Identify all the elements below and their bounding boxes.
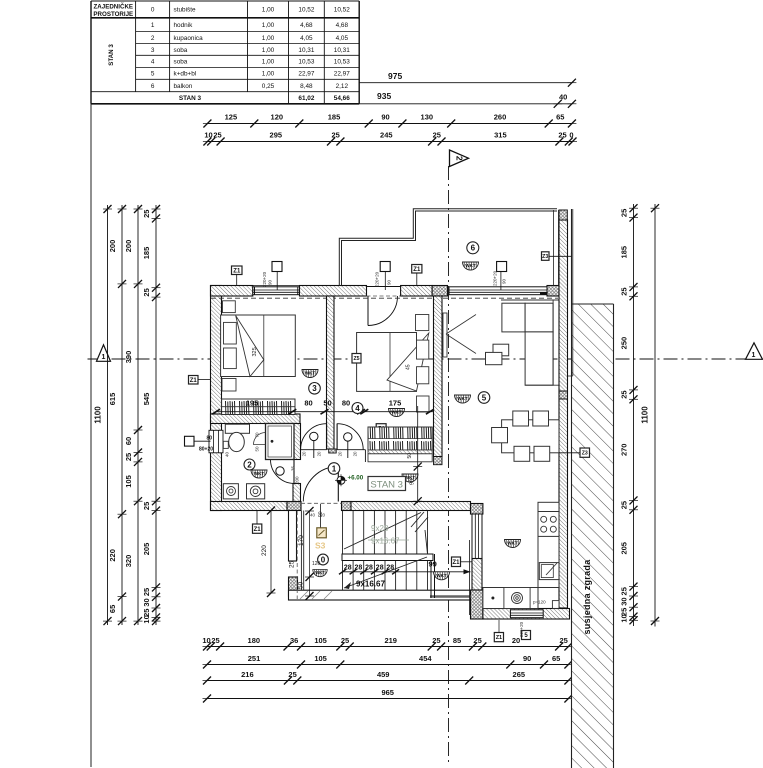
TV bench bbox=[443, 313, 447, 357]
divider wall room3/room4 bbox=[327, 296, 335, 449]
svg-text:80+20: 80+20 bbox=[199, 447, 213, 453]
svg-text:soba: soba bbox=[174, 59, 188, 66]
svg-text:185: 185 bbox=[142, 247, 151, 260]
svg-text:5: 5 bbox=[482, 393, 487, 402]
svg-text:soba: soba bbox=[174, 47, 188, 54]
shower bbox=[266, 424, 295, 460]
svg-text:220+20: 220+20 bbox=[519, 621, 524, 637]
section line 1-1 horizontal dash-dot bbox=[88, 358, 763, 360]
svg-text:WKT: WKT bbox=[305, 371, 316, 376]
sink unit bbox=[247, 484, 265, 499]
svg-text:10,53: 10,53 bbox=[298, 59, 314, 66]
kitchen west wall bbox=[471, 504, 483, 515]
svg-text:p=120: p=120 bbox=[533, 600, 546, 605]
svg-text:4,05: 4,05 bbox=[300, 35, 313, 42]
svg-text:10,52: 10,52 bbox=[334, 7, 350, 14]
svg-text:120: 120 bbox=[312, 561, 321, 567]
left chain 200/615/220/65 bbox=[121, 205, 123, 625]
svg-text:9x28: 9x28 bbox=[371, 524, 389, 533]
hall shoe cabinet bbox=[368, 454, 432, 462]
svg-text:245: 245 bbox=[380, 131, 393, 140]
svg-text:2,12: 2,12 bbox=[336, 83, 349, 90]
svg-text:459: 459 bbox=[377, 670, 390, 679]
svg-text:20: 20 bbox=[317, 451, 322, 456]
svg-text:28: 28 bbox=[365, 565, 373, 572]
svg-text:WKT: WKT bbox=[436, 573, 447, 578]
svg-text:60: 60 bbox=[124, 437, 133, 445]
svg-text:Z3: Z3 bbox=[542, 254, 548, 260]
svg-text:30: 30 bbox=[620, 597, 629, 605]
left chain 200/390/60/25/105/320 bbox=[137, 205, 139, 625]
bed room4 bbox=[357, 333, 417, 392]
svg-text:65: 65 bbox=[552, 654, 560, 663]
stair dim 28s bbox=[343, 571, 471, 573]
bathroom door bbox=[293, 460, 295, 484]
svg-text:k+db+bl: k+db+bl bbox=[174, 71, 197, 78]
bathroom east wall bbox=[293, 424, 301, 460]
living room balcony glass door bbox=[449, 287, 547, 295]
svg-text:25: 25 bbox=[142, 502, 151, 510]
nightstand room4 top bbox=[416, 315, 429, 331]
svg-text:935: 935 bbox=[377, 91, 391, 101]
svg-text:454: 454 bbox=[419, 654, 432, 663]
Z1 label kitchen wall bbox=[452, 557, 461, 567]
svg-text:219: 219 bbox=[384, 636, 397, 645]
apartment entrance door bbox=[303, 467, 338, 502]
svg-text:9x16.67: 9x16.67 bbox=[371, 537, 400, 546]
svg-text:216: 216 bbox=[241, 670, 254, 679]
right chain 25/185/25/250/25/270/25/205/25/30/25/10 bbox=[633, 204, 635, 626]
svg-text:99: 99 bbox=[429, 560, 437, 569]
svg-text:615: 615 bbox=[108, 393, 117, 406]
svg-text:25: 25 bbox=[289, 560, 296, 568]
svg-text:220+20: 220+20 bbox=[375, 271, 380, 287]
svg-text:10,52: 10,52 bbox=[298, 7, 314, 14]
svg-text:10: 10 bbox=[620, 614, 629, 622]
svg-text:25: 25 bbox=[620, 587, 629, 595]
svg-text:130: 130 bbox=[421, 113, 434, 122]
left chain 25/185/25/545/25/205/25/30/25/10 bbox=[155, 205, 157, 625]
svg-text:PROSTORIJE: PROSTORIJE bbox=[93, 11, 133, 18]
svg-text:185: 185 bbox=[328, 113, 341, 122]
svg-text:2: 2 bbox=[247, 460, 252, 469]
svg-text:1100: 1100 bbox=[641, 406, 650, 424]
svg-text:40: 40 bbox=[559, 93, 567, 102]
svg-text:1,00: 1,00 bbox=[262, 59, 275, 66]
entrance door dashed head bbox=[301, 502, 342, 504]
svg-text:30: 30 bbox=[142, 598, 151, 606]
interior dim line rooms 3/4 bbox=[216, 411, 434, 413]
svg-text:90: 90 bbox=[502, 278, 507, 284]
svg-text:ZAJEDNIČKE: ZAJEDNIČKE bbox=[94, 4, 134, 11]
stair zone south wall bbox=[289, 590, 471, 600]
svg-text:Z3: Z3 bbox=[582, 451, 588, 457]
toilet bbox=[225, 424, 249, 433]
svg-text:25: 25 bbox=[124, 453, 133, 461]
svg-text:250: 250 bbox=[620, 337, 629, 350]
left chain total 1100 bbox=[107, 205, 109, 625]
bed room3 bbox=[221, 315, 296, 377]
svg-text:6: 6 bbox=[471, 244, 476, 253]
kitchen sink bbox=[539, 563, 559, 580]
bathroom window in left wall bbox=[209, 430, 223, 453]
wall room4/room5 bbox=[434, 296, 443, 457]
svg-text:0: 0 bbox=[151, 7, 155, 14]
svg-text:545: 545 bbox=[142, 393, 151, 406]
stove bbox=[538, 512, 559, 537]
svg-text:25: 25 bbox=[341, 636, 349, 645]
svg-text:stubište: stubište bbox=[174, 7, 196, 14]
Z1 label (left wall) bbox=[189, 376, 199, 385]
svg-text:61,02: 61,02 bbox=[298, 95, 314, 102]
svg-text:90: 90 bbox=[381, 113, 389, 122]
bottom chain row 1 (10 25 180 36 105 25 219 25 85 25 205 25) bbox=[207, 646, 568, 648]
svg-text:0: 0 bbox=[569, 131, 573, 140]
room table bbox=[91, 0, 359, 2]
svg-text:WKT: WKT bbox=[457, 396, 468, 401]
svg-text:1: 1 bbox=[752, 352, 756, 359]
svg-text:90: 90 bbox=[410, 479, 416, 485]
svg-text:10: 10 bbox=[204, 131, 212, 140]
svg-text:4: 4 bbox=[151, 59, 155, 66]
thin wall under wardrobe bbox=[368, 450, 432, 454]
svg-text:0: 0 bbox=[321, 555, 326, 564]
pier right of living balcony door bbox=[547, 286, 560, 297]
svg-text:4: 4 bbox=[355, 404, 360, 413]
svg-text:260: 260 bbox=[494, 113, 507, 122]
window marker square (left) bbox=[185, 436, 195, 446]
svg-text:STAN 3: STAN 3 bbox=[370, 480, 403, 491]
svg-text:205: 205 bbox=[620, 542, 629, 555]
svg-text:105: 105 bbox=[124, 475, 133, 488]
svg-text:8,48: 8,48 bbox=[300, 83, 313, 90]
stair zone west wall bbox=[289, 511, 297, 562]
wardrobe room3 bbox=[222, 399, 295, 415]
svg-text:25: 25 bbox=[142, 588, 151, 596]
svg-text:6: 6 bbox=[151, 83, 155, 90]
svg-text:390: 390 bbox=[124, 351, 133, 364]
svg-text:0,25: 0,25 bbox=[262, 83, 275, 90]
svg-text:5: 5 bbox=[151, 71, 155, 78]
dining table bbox=[502, 420, 559, 453]
svg-text:WKT: WKT bbox=[507, 541, 518, 546]
kitchen window in south wall bbox=[510, 610, 543, 618]
svg-text:Z1: Z1 bbox=[413, 267, 421, 273]
svg-text:70: 70 bbox=[255, 432, 260, 438]
svg-text:3: 3 bbox=[312, 384, 317, 393]
svg-text:195: 195 bbox=[246, 399, 259, 408]
svg-text:90: 90 bbox=[523, 654, 531, 663]
svg-text:1,00: 1,00 bbox=[262, 47, 275, 54]
svg-text:105: 105 bbox=[314, 654, 327, 663]
svg-text:1,00: 1,00 bbox=[262, 22, 275, 29]
svg-text:2: 2 bbox=[455, 156, 465, 161]
section marker 1 (right) bbox=[746, 343, 763, 360]
svg-text:65: 65 bbox=[556, 113, 564, 122]
wardrobe room4 bbox=[368, 427, 432, 450]
svg-text:4,68: 4,68 bbox=[336, 22, 349, 29]
svg-text:22,97: 22,97 bbox=[298, 71, 314, 78]
kitchen south wall bbox=[483, 609, 570, 620]
svg-text:25: 25 bbox=[558, 131, 566, 140]
right exterior wall bbox=[559, 220, 568, 608]
svg-text:1: 1 bbox=[332, 464, 337, 473]
svg-text:80: 80 bbox=[304, 399, 312, 408]
svg-text:80: 80 bbox=[207, 436, 213, 442]
svg-text:50: 50 bbox=[298, 581, 305, 589]
svg-text:125: 125 bbox=[225, 113, 238, 122]
stair lower diagonal bbox=[344, 557, 427, 588]
svg-text:265: 265 bbox=[513, 670, 526, 679]
svg-text:4,68: 4,68 bbox=[300, 22, 313, 29]
svg-text:Z1: Z1 bbox=[190, 378, 198, 384]
svg-text:320: 320 bbox=[124, 555, 133, 568]
susjedna zgrada hatch strip bbox=[572, 304, 614, 768]
marker box on section line (room4) bbox=[352, 354, 361, 364]
svg-text:50: 50 bbox=[255, 446, 260, 452]
window marker squares on top wall bbox=[272, 262, 282, 272]
door hall-room3 bbox=[300, 449, 326, 451]
svg-text:4,05: 4,05 bbox=[336, 35, 349, 42]
svg-text:40: 40 bbox=[310, 513, 316, 518]
washing machine bbox=[223, 484, 238, 499]
svg-text:10: 10 bbox=[142, 615, 151, 623]
svg-text:200: 200 bbox=[124, 240, 133, 253]
svg-text:25: 25 bbox=[211, 636, 219, 645]
stair handrail bbox=[342, 554, 433, 561]
svg-text:3: 3 bbox=[151, 47, 155, 54]
dim chain row (125 120 185 90 130 260 65) bbox=[207, 123, 572, 125]
svg-text:25: 25 bbox=[433, 131, 441, 140]
bottom chain row 3 (216 25 459 265) bbox=[207, 680, 568, 682]
staircase treads bbox=[342, 511, 344, 590]
bottom total row 965 bbox=[207, 698, 568, 700]
svg-text:25: 25 bbox=[620, 501, 629, 509]
svg-text:20: 20 bbox=[338, 451, 343, 456]
svg-text:25: 25 bbox=[620, 390, 629, 398]
window W1 room3 bbox=[253, 287, 300, 295]
svg-text:22,97: 22,97 bbox=[334, 71, 350, 78]
svg-text:90: 90 bbox=[387, 279, 392, 285]
section line 2-2 vertical dash-dot bbox=[448, 166, 450, 765]
svg-text:1,00: 1,00 bbox=[262, 35, 275, 42]
svg-text:STAN 3: STAN 3 bbox=[179, 95, 202, 102]
svg-text:220: 220 bbox=[261, 545, 268, 556]
svg-text:40: 40 bbox=[225, 451, 230, 457]
svg-text:35: 35 bbox=[291, 465, 296, 471]
svg-text:175: 175 bbox=[389, 399, 402, 408]
svg-text:1100: 1100 bbox=[94, 406, 103, 424]
top exterior wall of bedrooms bbox=[211, 286, 253, 297]
S3 marker bbox=[320, 504, 322, 528]
elevation target +6.00 bbox=[337, 476, 345, 484]
svg-text:28: 28 bbox=[376, 565, 384, 572]
svg-text:170: 170 bbox=[298, 535, 305, 546]
svg-text:Z1: Z1 bbox=[254, 527, 262, 533]
svg-text:balkon: balkon bbox=[174, 83, 193, 90]
svg-text:220+20: 220+20 bbox=[262, 271, 267, 287]
svg-text:WKT: WKT bbox=[254, 471, 265, 476]
roof overhang dashed line bbox=[211, 297, 558, 299]
svg-text:10: 10 bbox=[202, 636, 210, 645]
right total 1100 bbox=[654, 204, 656, 627]
svg-text:S3: S3 bbox=[315, 541, 326, 551]
svg-text:295: 295 bbox=[270, 131, 283, 140]
svg-text:325: 325 bbox=[252, 347, 258, 356]
svg-text:45: 45 bbox=[406, 364, 412, 370]
Z1 label below bathroom wall bbox=[253, 524, 262, 533]
svg-text:10,53: 10,53 bbox=[334, 59, 350, 66]
svg-text:25: 25 bbox=[213, 131, 221, 140]
balcony parapet bbox=[342, 211, 558, 286]
svg-text:1: 1 bbox=[151, 22, 155, 29]
svg-text:50: 50 bbox=[407, 453, 413, 459]
svg-text:Z5: Z5 bbox=[353, 356, 359, 362]
svg-text:STAN 3: STAN 3 bbox=[108, 44, 115, 66]
dim chain row (10 25 295 25 245 25 315 25 10) bbox=[207, 141, 572, 143]
kitchen wall face line bbox=[469, 540, 471, 615]
svg-text:2: 2 bbox=[151, 35, 155, 42]
svg-text:105: 105 bbox=[314, 636, 327, 645]
stair up-diagonal + break bbox=[344, 513, 421, 550]
svg-text:965: 965 bbox=[381, 688, 394, 697]
Z4 box room4 wardrobe bbox=[376, 424, 386, 433]
stair zone labels bbox=[318, 554, 329, 565]
svg-text:+6.00: +6.00 bbox=[348, 475, 364, 482]
section marker 2 (top) bbox=[450, 150, 469, 167]
svg-text:315: 315 bbox=[494, 131, 507, 140]
svg-text:975: 975 bbox=[388, 71, 402, 81]
svg-text:1,00: 1,00 bbox=[262, 7, 275, 14]
sofa bbox=[501, 299, 559, 301]
dashed wall continuation stub bbox=[296, 511, 298, 599]
room3 south wall bbox=[211, 414, 301, 424]
svg-text:85: 85 bbox=[453, 636, 461, 645]
svg-text:180: 180 bbox=[248, 636, 261, 645]
stair 220 dim bbox=[270, 511, 272, 594]
left exterior wall bbox=[211, 286, 222, 511]
svg-text:200: 200 bbox=[295, 476, 300, 484]
bottom chain row 2 (251 105 454 90 65) bbox=[207, 664, 568, 666]
svg-text:WKT: WKT bbox=[315, 570, 325, 575]
kitchen counter right bbox=[538, 502, 559, 587]
plot boundary vertical line bbox=[90, 104, 92, 767]
svg-text:20: 20 bbox=[353, 451, 358, 456]
svg-text:80: 80 bbox=[342, 399, 350, 408]
nightstand room3 top bbox=[223, 301, 236, 313]
svg-text:205: 205 bbox=[142, 543, 151, 556]
svg-text:20: 20 bbox=[302, 451, 307, 456]
svg-text:Z1: Z1 bbox=[452, 560, 460, 566]
svg-text:10,31: 10,31 bbox=[298, 47, 314, 54]
bathroom/hall south wall bbox=[211, 502, 288, 511]
svg-text:kupaonica: kupaonica bbox=[174, 35, 204, 42]
svg-text:25: 25 bbox=[620, 287, 629, 295]
nightstand room3 bottom bbox=[222, 379, 236, 392]
svg-text:185: 185 bbox=[620, 246, 629, 259]
vertical dim 90 at hall/living opening bbox=[417, 406, 419, 503]
svg-text:200: 200 bbox=[108, 240, 117, 253]
nightstand room4 bottom bbox=[417, 396, 430, 412]
svg-text:25: 25 bbox=[142, 288, 151, 296]
svg-text:120: 120 bbox=[271, 113, 284, 122]
svg-text:28: 28 bbox=[344, 565, 352, 572]
svg-text:Z1: Z1 bbox=[496, 635, 502, 641]
svg-text:9x16.67: 9x16.67 bbox=[356, 580, 385, 589]
svg-text:25: 25 bbox=[432, 636, 440, 645]
svg-text:28: 28 bbox=[355, 565, 363, 572]
svg-text:WKT: WKT bbox=[465, 263, 476, 268]
svg-text:90: 90 bbox=[268, 279, 273, 285]
svg-text:25: 25 bbox=[332, 131, 340, 140]
svg-text:65: 65 bbox=[108, 605, 117, 613]
coffee tables bbox=[493, 344, 509, 356]
dim line 975 bbox=[359, 82, 572, 84]
svg-text:220: 220 bbox=[108, 549, 117, 562]
pier at divider room4/room5 bbox=[432, 286, 447, 297]
svg-text:25: 25 bbox=[288, 670, 296, 679]
svg-text:25: 25 bbox=[142, 210, 151, 218]
door hall-room4 bbox=[337, 449, 363, 451]
svg-text:1: 1 bbox=[102, 354, 106, 361]
svg-text:Z1: Z1 bbox=[233, 268, 241, 274]
balcony door arc room4 bbox=[367, 296, 369, 326]
svg-text:1,00: 1,00 bbox=[262, 71, 275, 78]
STAN 3 box bbox=[368, 477, 406, 491]
svg-text:25: 25 bbox=[473, 636, 481, 645]
svg-text:50: 50 bbox=[323, 399, 331, 408]
svg-text:54,66: 54,66 bbox=[334, 95, 350, 102]
svg-text:10,31: 10,31 bbox=[334, 47, 350, 54]
svg-text:hodnik: hodnik bbox=[174, 22, 194, 29]
svg-text:25: 25 bbox=[560, 636, 568, 645]
door room4-balcony (opening) bbox=[367, 286, 401, 288]
section marker 1 (left) bbox=[97, 345, 111, 362]
svg-text:220+20: 220+20 bbox=[493, 270, 498, 286]
svg-text:25: 25 bbox=[620, 209, 629, 217]
svg-text:susjedna zgrada: susjedna zgrada bbox=[582, 559, 592, 635]
svg-text:28: 28 bbox=[386, 565, 394, 572]
stair right wall bbox=[430, 554, 432, 598]
svg-text:270: 270 bbox=[620, 444, 629, 457]
dim line 935 + 40 bbox=[359, 103, 572, 105]
svg-text:36: 36 bbox=[290, 636, 298, 645]
kitchen bottom counter bbox=[483, 588, 538, 609]
svg-text:251: 251 bbox=[248, 654, 261, 663]
